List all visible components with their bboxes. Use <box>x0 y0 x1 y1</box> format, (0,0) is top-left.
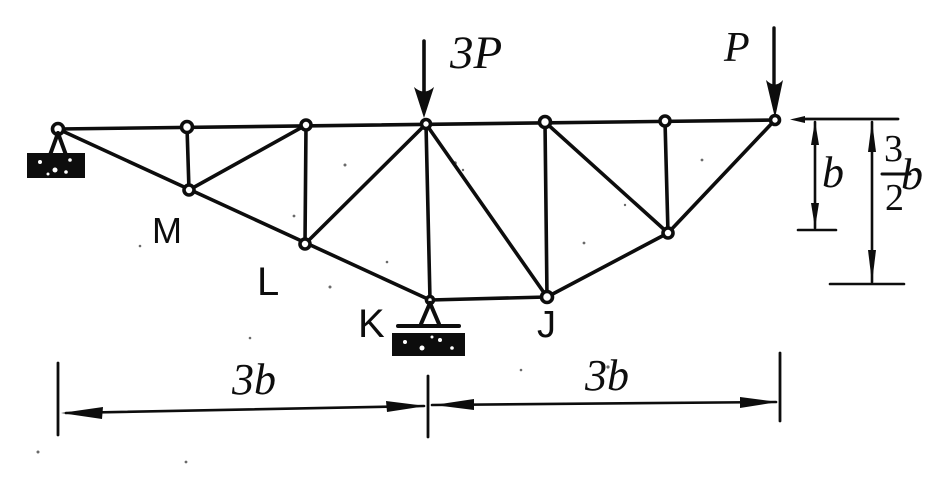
svg-text:K: K <box>358 302 385 346</box>
wire bottom chord J to mid-right <box>547 233 668 297</box>
svg-text:M: M <box>152 210 182 251</box>
wire diagonal center to J <box>426 124 547 297</box>
node top joint 3 <box>301 120 311 130</box>
scan noise speckles <box>37 159 704 464</box>
wire vertical member at L <box>305 125 306 244</box>
K pin support <box>392 303 465 356</box>
dimension bottom center tick <box>427 376 430 437</box>
wire diagonal L to top center <box>305 124 426 244</box>
load arrow 3P <box>414 41 434 118</box>
node right end joint <box>771 116 780 125</box>
svg-text:3b: 3b <box>584 351 629 400</box>
dimension 3b right segment <box>432 397 778 410</box>
svg-text:L: L <box>257 260 279 304</box>
wire bottom chord K to J <box>430 297 547 300</box>
wire diagonal top to mid-right <box>545 122 668 233</box>
node K joint <box>427 297 434 304</box>
node top joint 6 <box>660 116 670 126</box>
dimension 3/2 b line <box>830 121 904 284</box>
node J joint <box>542 292 553 303</box>
left pin support <box>27 133 85 178</box>
node M joint <box>184 185 194 195</box>
wire left bottom chord diagonal <box>58 129 430 300</box>
node top joint 5 <box>540 117 551 128</box>
wire vertical member at M <box>187 127 189 190</box>
svg-text:3P: 3P <box>449 27 502 79</box>
dimension b line <box>798 121 836 230</box>
wire bottom chord mid-right to right end <box>668 120 775 233</box>
node mid-right joint <box>663 228 673 238</box>
dimension 3b left segment <box>61 401 426 419</box>
wire vertical member at K <box>426 124 430 300</box>
wire vertical member at J <box>545 122 547 297</box>
svg-text:J: J <box>537 304 556 346</box>
label 3/2 b fraction <box>884 128 923 219</box>
wire diagonal M to top <box>189 125 306 190</box>
svg-text:3b: 3b <box>231 355 276 404</box>
node top center joint <box>422 120 431 129</box>
load arrow P <box>766 28 783 118</box>
node left support joint <box>53 124 64 135</box>
dimension bottom right tick <box>779 353 782 421</box>
dimension top reference line right <box>790 116 898 123</box>
node top joint 2 <box>182 122 193 133</box>
svg-text:P: P <box>723 25 750 71</box>
dimension bottom left tick <box>57 363 60 435</box>
wire vertical member right panel <box>665 121 668 233</box>
svg-text:b: b <box>822 148 844 197</box>
node L joint <box>300 239 310 249</box>
wire top chord <box>58 120 775 129</box>
